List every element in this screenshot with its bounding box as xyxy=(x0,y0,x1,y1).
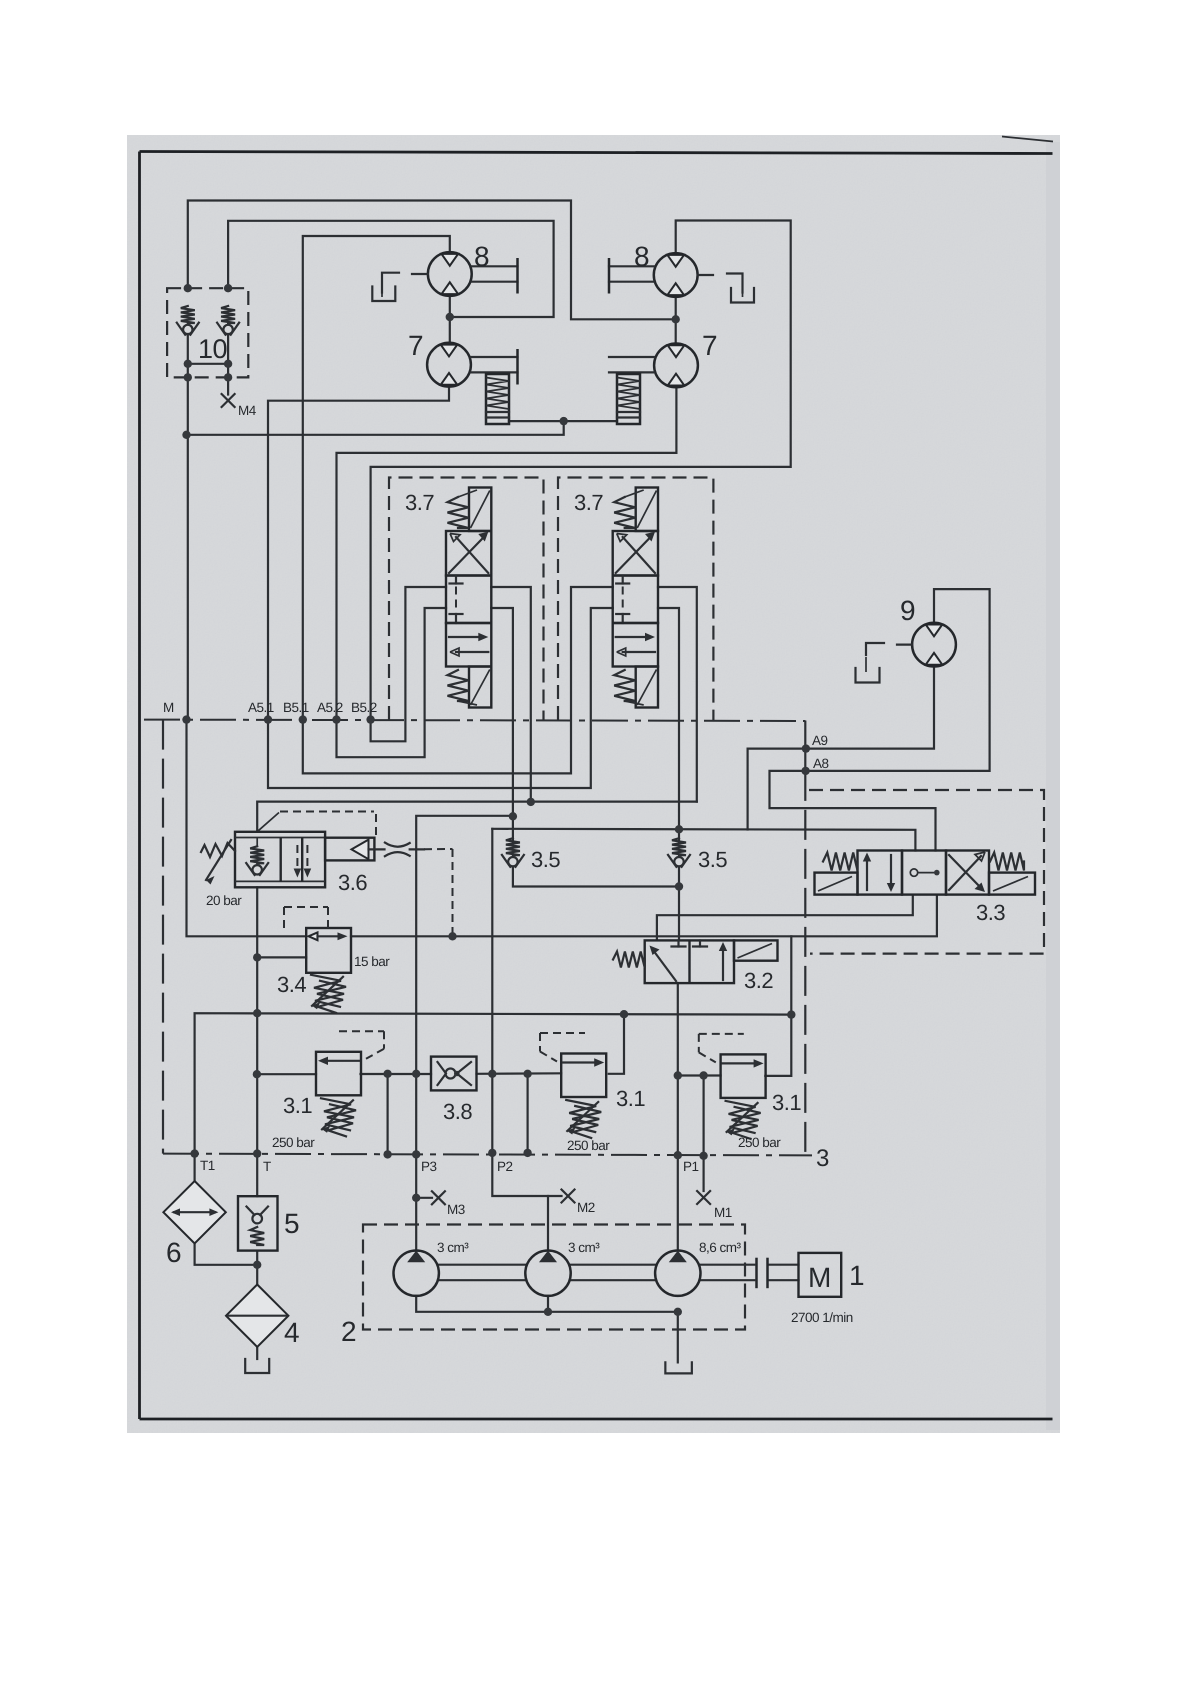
filter 4 xyxy=(226,1285,288,1347)
wire: valve 3.7 right lower-right port down to check 3.5 right xyxy=(658,608,679,829)
check valve pair 10 xyxy=(167,288,248,377)
wire: right check line down to test point M4 xyxy=(227,334,229,395)
svg-text:250 bar: 250 bar xyxy=(567,1138,610,1153)
solenoid valve 3.2 xyxy=(645,940,734,983)
relief valve 3.1 spring xyxy=(321,1098,354,1130)
shaft motor 7 left xyxy=(471,356,518,358)
brake cylinder right xyxy=(617,374,640,424)
junction dots pump drain xyxy=(544,1308,552,1316)
relief valve 3.1 spring xyxy=(726,1101,759,1133)
svg-text:A9: A9 xyxy=(812,733,828,748)
node P2 xyxy=(488,1149,496,1157)
motor 9 xyxy=(912,623,956,667)
junction dots relief line xyxy=(383,1070,391,1078)
valve 3.4 spring with arrow xyxy=(311,975,344,1007)
enclosure of valve 3.3 xyxy=(809,790,1044,954)
wire: P2 riser xyxy=(491,829,493,1153)
wire: relief 3.1 third left link xyxy=(678,1074,721,1076)
test point M4 xyxy=(222,394,235,407)
wire: motor column left (8 to 7) xyxy=(449,296,451,343)
tank below filter 4 xyxy=(245,1359,269,1373)
svg-text:7: 7 xyxy=(408,330,423,361)
relief valve 3.1 pilot dashes xyxy=(339,1030,384,1032)
relief valve 3.1 spring xyxy=(566,1100,599,1132)
svg-text:M: M xyxy=(808,1262,831,1293)
junction dots box 10 xyxy=(184,284,192,292)
motor 8 left xyxy=(428,252,472,296)
proportional valve 3.7 xyxy=(636,488,658,532)
wire: P3 stub riser xyxy=(387,1074,389,1155)
svg-text:20 bar: 20 bar xyxy=(206,893,242,908)
wire: motor 9 top loop to node A8 xyxy=(806,589,990,771)
svg-text:250 bar: 250 bar xyxy=(272,1135,315,1150)
shaft motor 8 left xyxy=(472,265,518,267)
wire: valve 3.7 left lower-right port down to check 3.5 left xyxy=(491,608,513,816)
valve 3.3 left solenoid and spring xyxy=(815,873,858,895)
svg-text:3.4: 3.4 xyxy=(277,972,306,997)
coupling xyxy=(755,1258,758,1289)
svg-text:3.5: 3.5 xyxy=(531,847,560,872)
check valve 5 xyxy=(238,1196,278,1250)
svg-text:15 bar: 15 bar xyxy=(354,954,390,969)
svg-text:P3: P3 xyxy=(421,1159,437,1174)
pilot line to node xyxy=(410,848,424,850)
valve 3.6 pilot head xyxy=(325,838,374,861)
proportional valve 3.7 xyxy=(469,488,491,532)
wire: check 3.5 right stubs and line to valve 3.2 xyxy=(678,829,680,842)
node P1 xyxy=(674,1151,682,1159)
wire: 15 bar line to valve 3.3 lower port riser xyxy=(351,895,937,937)
valve 3.6 spring with arrow xyxy=(201,843,235,857)
svg-text:6: 6 xyxy=(166,1237,181,1268)
pressure valve 3.6 xyxy=(235,832,325,888)
valve 3.6 pilot dashes to top xyxy=(258,813,279,831)
enclosure of pump group 2 xyxy=(363,1225,745,1330)
node A5.1 xyxy=(264,715,272,723)
wire: tank port T1 riser to filter 6 xyxy=(194,1154,196,1181)
svg-text:3.5: 3.5 xyxy=(698,847,727,872)
svg-text:3.1: 3.1 xyxy=(616,1086,645,1111)
valve 3.6 dashed flow arrows xyxy=(296,845,298,871)
block 3 boundary bottom port line xyxy=(163,1154,812,1156)
wire: left check through-line down to node M xyxy=(187,334,189,720)
node B5.2 xyxy=(366,715,374,723)
wire: long return line above relief valves xyxy=(195,1013,792,1153)
svg-text:M: M xyxy=(163,700,174,715)
block 3 boundary left edge xyxy=(162,720,164,1154)
drain line and tank at motor 8 right xyxy=(698,274,713,276)
wire: motor 7 left bottom port to A5.1 riser to valve 3.7 right lower-left port xyxy=(268,387,613,788)
wire: box10 internal bottom link xyxy=(188,363,228,365)
valve 3.3 internals cell B crossed arrows xyxy=(949,856,981,890)
svg-text:2700 1/min: 2700 1/min xyxy=(791,1310,853,1325)
wire: relief 3.1 first to shuttle 3.8 xyxy=(361,1073,432,1075)
wire: riser lower port of valve 3.4 xyxy=(257,956,306,958)
shaft motor 8 right xyxy=(609,265,654,267)
enclosure of right valve 3.7 xyxy=(558,478,713,721)
svg-text:A5.2: A5.2 xyxy=(317,700,343,715)
wire: block boundary segment A9-A8 xyxy=(804,722,806,771)
wire: valve 3.6 bottom riser to T port xyxy=(256,887,258,1153)
pump 1 xyxy=(394,1251,439,1296)
junction dots around valve 3.4 xyxy=(448,932,456,940)
wire: motor 7 right bottom port to A5.2 riser to valve 3.7 left lower-left port xyxy=(337,388,677,758)
wire: check 3.5 left top node line xyxy=(416,816,513,1074)
wire: branch up to A9 line and motor 9 bottom port xyxy=(748,667,934,830)
enclosure of left valve 3.7 xyxy=(389,478,544,721)
wire: relief 3.1 second right port link xyxy=(609,1014,624,1074)
relief valve 3.1 pilot dashes xyxy=(540,1032,585,1034)
node T xyxy=(253,1149,261,1157)
svg-text:7: 7 xyxy=(702,330,717,361)
junction dot M3 xyxy=(412,1194,420,1202)
svg-text:3.7: 3.7 xyxy=(405,490,434,515)
electric motor 1 xyxy=(799,1253,842,1297)
svg-text:3 cm³: 3 cm³ xyxy=(437,1240,469,1255)
svg-text:M4: M4 xyxy=(238,403,257,418)
wire: riser from 15 bar line down to relief 3.1 third xyxy=(765,936,791,1076)
pressure reducing valve 3.4 xyxy=(306,928,351,973)
svg-text:3.7: 3.7 xyxy=(574,490,603,515)
svg-text:M3: M3 xyxy=(447,1202,465,1217)
pump 3 xyxy=(655,1251,700,1296)
svg-text:1: 1 xyxy=(849,1260,864,1291)
motor 8 right xyxy=(654,253,698,297)
svg-text:B5.2: B5.2 xyxy=(351,700,377,715)
solenoid valve 3.3 xyxy=(858,851,903,895)
junction dot filter line xyxy=(253,1261,261,1269)
svg-text:3.8: 3.8 xyxy=(443,1099,472,1124)
junction dots motor group xyxy=(446,313,454,321)
svg-text:8: 8 xyxy=(474,241,489,272)
svg-text:9: 9 xyxy=(900,595,915,626)
wire: node A8 branch to valve 3.3 middle pilot xyxy=(770,771,936,851)
svg-text:P1: P1 xyxy=(683,1159,699,1174)
wire: P2 to pump 2 and test point M2 xyxy=(492,1153,561,1196)
svg-text:2: 2 xyxy=(341,1316,356,1347)
wire: valve 3.3 left bottom port to valve 3.2 pilot xyxy=(657,895,913,941)
drain line and tank at motor 9 xyxy=(897,643,912,645)
svg-text:3: 3 xyxy=(816,1145,829,1172)
wire: P3 riser below relief line xyxy=(415,1074,417,1253)
flow restrictor xyxy=(385,843,410,847)
svg-text:T: T xyxy=(263,1159,271,1174)
wire: line from P2 riser across to valve 3.3 pilot xyxy=(492,829,915,851)
node M xyxy=(182,715,190,723)
pump 2 xyxy=(525,1251,570,1296)
wire: B5.1 node to valve 3.7 right upper-left port xyxy=(303,587,613,773)
svg-text:3.2: 3.2 xyxy=(744,968,773,993)
wire: long line to valve 3.6 top xyxy=(257,802,697,832)
svg-text:M1: M1 xyxy=(714,1205,732,1220)
svg-text:3.1: 3.1 xyxy=(772,1090,801,1115)
svg-text:250 bar: 250 bar xyxy=(738,1135,781,1150)
shuttle valve 3.8 xyxy=(431,1057,477,1091)
node P3 xyxy=(383,1150,391,1158)
wire: pump 2 riser xyxy=(547,1196,549,1250)
svg-text:8: 8 xyxy=(634,241,649,272)
wire: box10 left check to top loop to right motor column xyxy=(188,201,676,320)
wire: M3 stub xyxy=(416,1197,432,1199)
wire: check 3.5 left body stubs xyxy=(512,816,514,842)
brake cylinder left xyxy=(486,374,509,424)
valve 3.2 spring xyxy=(613,952,645,968)
node A9 xyxy=(802,744,810,752)
wire: pump drain line to tank xyxy=(416,1296,678,1363)
motor 7 left xyxy=(427,343,471,387)
wire: pump shaft lines xyxy=(439,1264,525,1266)
relief valve 3.1 xyxy=(721,1054,766,1098)
wire: shuttle 3.8 to relief 3.1 second xyxy=(477,1072,562,1075)
test point M1 xyxy=(697,1191,710,1204)
valve 3.4 pilot dashes xyxy=(284,906,328,908)
wire: valve 3.7 right upper-right port down to line M-valve 3.6 xyxy=(658,587,697,802)
svg-text:T1: T1 xyxy=(200,1158,215,1173)
wire: motor 8 right top to outer loop to B5.2 riser to valve 3.7 left upper-left port xyxy=(371,221,791,742)
svg-text:5: 5 xyxy=(284,1208,299,1239)
svg-text:3.1: 3.1 xyxy=(283,1093,312,1118)
relief valve 3.1 xyxy=(561,1054,606,1098)
block 3 boundary right edge xyxy=(804,771,806,1155)
svg-text:B5.1: B5.1 xyxy=(283,700,309,715)
test point M2 xyxy=(562,1190,575,1203)
svg-text:P2: P2 xyxy=(497,1159,513,1174)
svg-text:8,6 cm³: 8,6 cm³ xyxy=(699,1240,742,1255)
wire: filter 6 bottom to T riser xyxy=(195,1243,258,1264)
wire: test point M1 stub xyxy=(702,1156,704,1191)
wire: box10 right check to second loop to left motor column xyxy=(228,221,553,317)
filter 6 xyxy=(163,1181,225,1243)
tank below pump 3 xyxy=(665,1362,692,1373)
valve 3.3 right solenoid and spring xyxy=(989,873,1035,895)
valve 3.2 solenoid xyxy=(734,940,778,960)
test point M3 xyxy=(432,1191,445,1204)
valve 3.3 internals middle pilot xyxy=(910,869,917,876)
motor 7 right xyxy=(654,344,698,388)
svg-text:M2: M2 xyxy=(577,1200,595,1215)
check valve 3.5 left xyxy=(506,838,520,855)
valve 3.3 internals cell A xyxy=(866,856,868,890)
valve 3.2 internals xyxy=(653,950,676,981)
wire: node M riser and 15 bar line through valve 3.4 xyxy=(187,720,307,937)
wire: valve 3.2 bottom port to P1 and pump 3 xyxy=(677,983,679,1250)
wire: B5.1 riser to motor 8 top xyxy=(303,236,450,720)
svg-text:A8: A8 xyxy=(813,756,829,771)
svg-text:10: 10 xyxy=(198,334,227,364)
wire: brake cylinders bottom link xyxy=(509,420,617,422)
node A5.2 xyxy=(332,715,340,723)
drain line and tank at motor 8 left xyxy=(412,273,428,275)
node T1 xyxy=(190,1149,198,1157)
node A8 xyxy=(801,767,809,775)
wire: brake release line xyxy=(187,421,564,435)
wire: T riser through check valve 5 and filter 4 to tank xyxy=(256,1154,258,1197)
relief valve 3.1 pilot dashes xyxy=(699,1033,744,1035)
wire: P2 second riser xyxy=(526,1074,528,1153)
wire: valve 3.7 left upper-right port down to node xyxy=(491,587,531,802)
svg-text:3.3: 3.3 xyxy=(976,900,1005,925)
wire: motor column right (8 to 7) xyxy=(675,297,677,344)
node line with ports M A5.1 B5.1 A5.2 B5.2 xyxy=(144,720,805,721)
check valve 3.5 right xyxy=(672,838,686,855)
wire: P1 second riser xyxy=(702,1076,704,1156)
svg-text:3 cm³: 3 cm³ xyxy=(568,1240,600,1255)
shaft motor 7 right xyxy=(609,356,654,358)
svg-text:A5.1: A5.1 xyxy=(248,700,274,715)
svg-text:4: 4 xyxy=(284,1317,299,1348)
relief valve 3.1 xyxy=(316,1052,361,1096)
svg-text:3.6: 3.6 xyxy=(338,870,367,895)
node B5.1 xyxy=(299,715,307,723)
wire: relief line T riser to relief 3.1 first xyxy=(257,1073,316,1075)
